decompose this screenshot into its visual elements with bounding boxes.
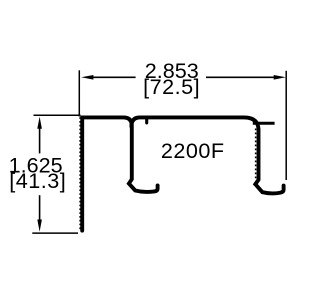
profile right strip: top run, right wall and right foot bbox=[131, 117, 283, 193]
extension line left-bottom (horizontal) bbox=[32, 232, 78, 234]
extension line top-right (vertical) bbox=[285, 71, 287, 180]
arrowhead right of top dimension bbox=[274, 75, 286, 80]
svg-text:[41.3]: [41.3] bbox=[9, 168, 66, 193]
svg-text:2200F: 2200F bbox=[161, 138, 225, 163]
knurl serration on right wall outer edge bbox=[255, 129, 257, 179]
top dimension line (right segment) bbox=[206, 76, 274, 78]
top dimension line (left segment) bbox=[93, 76, 136, 78]
knurl serration on left leg outer edge bbox=[79, 117, 81, 229]
left dimension line (lower segment) bbox=[39, 195, 41, 219]
profile left strip: left leg, top-left flange, center channel wall and foot bbox=[82, 117, 157, 230]
arrowhead down of left dimension bbox=[37, 220, 42, 232]
arrowhead left of top dimension bbox=[81, 75, 93, 80]
extension line top-left (vertical) bbox=[78, 70, 80, 116]
svg-text:[72.5]: [72.5] bbox=[143, 74, 200, 99]
extension line left-top (horizontal) bbox=[34, 114, 81, 116]
arrowhead up of left dimension bbox=[37, 117, 42, 129]
lip tick under top run (left) bbox=[145, 119, 148, 123]
left dimension line (upper segment) bbox=[39, 128, 41, 153]
right top lip flange bbox=[253, 122, 275, 125]
